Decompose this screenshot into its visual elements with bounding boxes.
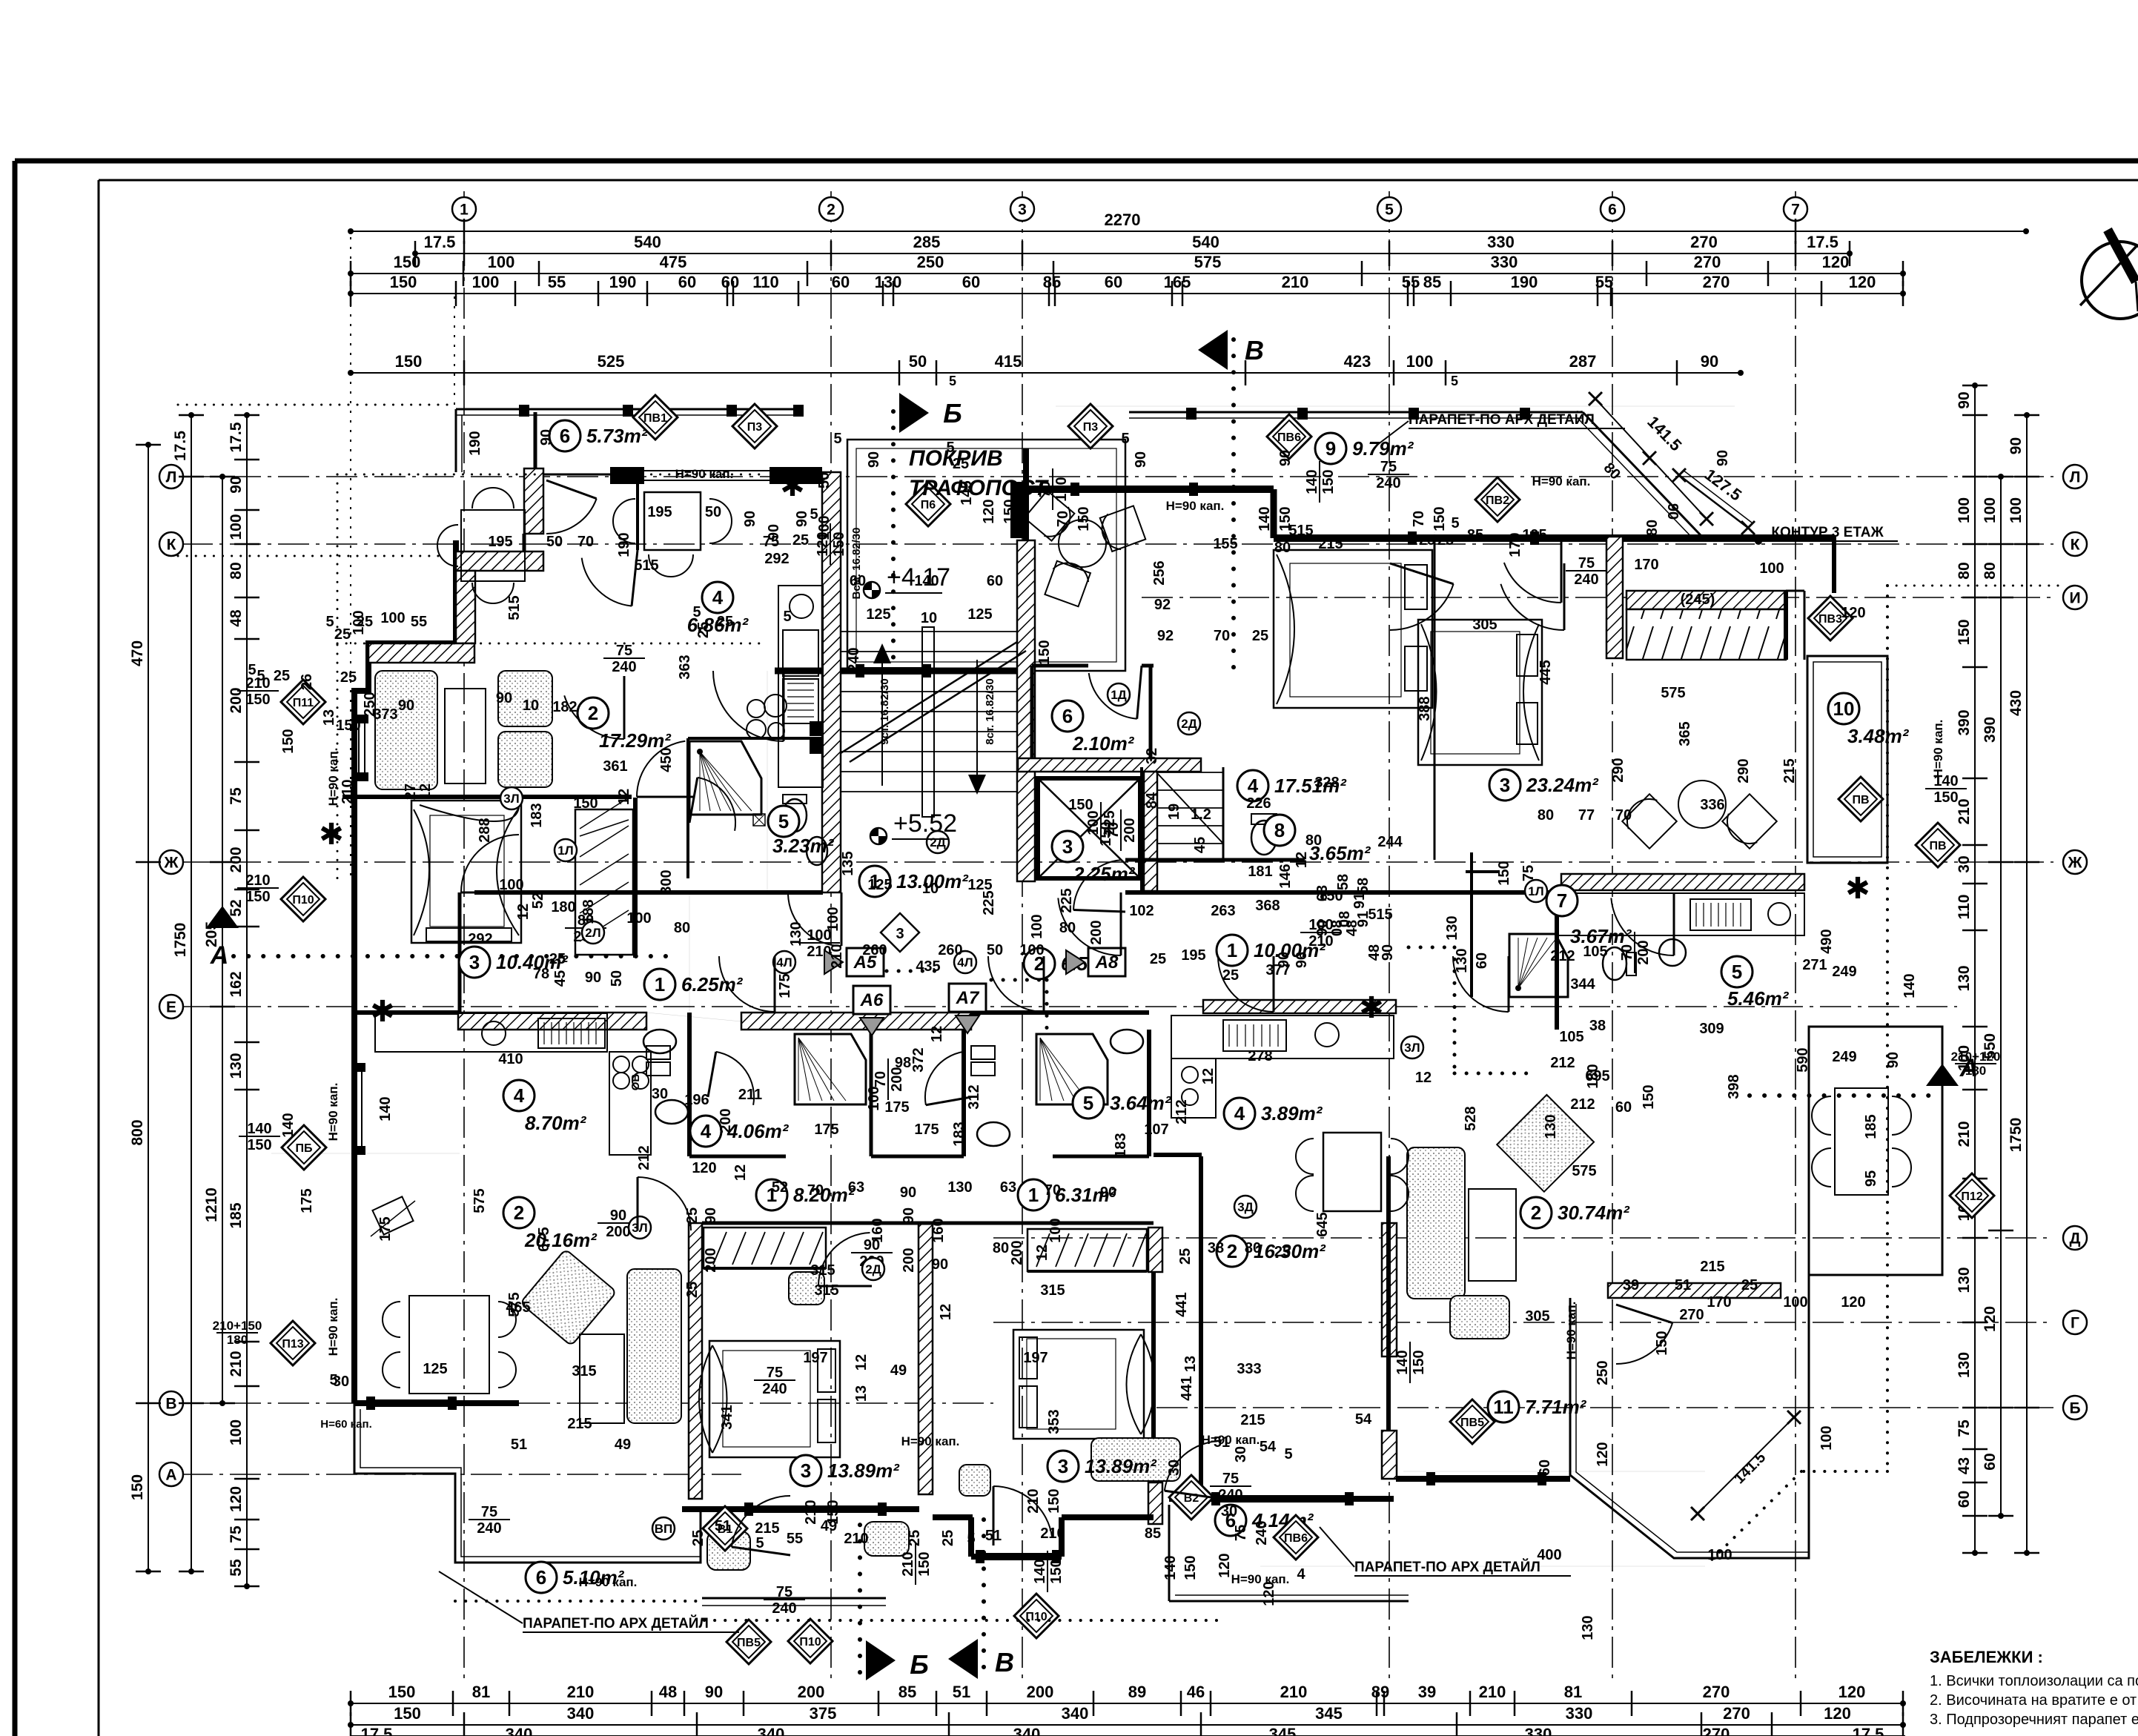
wall bedroom3 north [342,795,632,799]
svg-text:8: 8 [1274,819,1285,841]
svg-text:212: 212 [1550,948,1575,964]
svg-text:345: 345 [1269,1725,1297,1736]
svg-text:2.10m²: 2.10m² [1072,732,1135,755]
svg-text:315: 315 [1040,1282,1065,1299]
svg-text:П3: П3 [747,421,763,434]
svg-text:372: 372 [910,1047,927,1072]
svg-text:441: 441 [1174,1292,1190,1316]
svg-text:165: 165 [1164,273,1191,291]
svg-text:130: 130 [875,273,902,291]
svg-text:2270: 2270 [1105,211,1141,229]
svg-text:100: 100 [499,877,523,893]
svg-text:470: 470 [129,640,146,666]
svg-text:77: 77 [1578,807,1595,824]
svg-text:17.5: 17.5 [172,431,189,461]
svg-text:292: 292 [468,931,492,947]
bath 7 3.67 [1466,870,1498,873]
svg-text:П13: П13 [282,1338,303,1351]
svg-text:85: 85 [898,1683,916,1701]
svg-text:200: 200 [1009,1240,1025,1265]
svg-text:175: 175 [814,1122,838,1138]
svg-text:6: 6 [1062,705,1073,727]
svg-text:48: 48 [228,609,245,627]
svg-text:Б: Б [2069,1400,2080,1417]
svg-text:100: 100 [1818,1425,1835,1450]
svg-text:120: 120 [692,1160,716,1176]
bath 3.23 walls [688,737,822,740]
bedroom2 east wall [1151,1228,1156,1524]
svg-text:450: 450 [658,747,675,772]
svg-text:90: 90 [585,970,601,986]
toilet mid-right [977,1122,1010,1146]
svg-text:Ж: Ж [164,855,179,872]
svg-text:К: К [167,537,176,554]
svg-text:60: 60 [721,273,739,291]
svg-text:244: 244 [1377,834,1403,850]
svg-text:78: 78 [533,966,549,982]
svg-text:415: 415 [995,352,1022,371]
svg-text:183: 183 [1113,1133,1129,1157]
svg-text:85: 85 [1467,527,1483,543]
svg-text:100: 100 [2008,497,2025,523]
svg-text:435: 435 [916,958,940,975]
svg-text:150: 150 [394,1704,421,1723]
diagonal dim 141.5 bottom right [1698,1417,1794,1514]
sink mid-left [643,1030,676,1053]
svg-text:260: 260 [862,942,887,958]
bottom-left partition kitchen/living [271,1153,460,1154]
svg-text:75: 75 [1222,1471,1239,1487]
svg-text:75: 75 [228,787,245,805]
svg-text:175: 175 [914,1122,939,1138]
inner mattress lines beds [723,1351,810,1447]
svg-text:90: 90 [610,1207,626,1224]
shower mid-left [795,1034,866,1104]
svg-text:340: 340 [506,1725,533,1736]
svg-text:305: 305 [1525,1308,1549,1325]
svg-text:210: 210 [844,1531,868,1547]
svg-text:140: 140 [1902,973,1918,998]
svg-text:ПВ: ПВ [1929,840,1946,852]
svg-text:Б: Б [910,1649,929,1680]
svg-text:185: 185 [228,1202,245,1228]
svg-text:5: 5 [778,810,789,832]
svg-text:162: 162 [228,971,245,997]
OB boxes [646,1046,670,1059]
svg-text:45: 45 [552,970,569,987]
svg-text:1750: 1750 [2008,1118,2025,1153]
sofa living 16.30 [1091,1438,1180,1481]
svg-text:ПБ: ПБ [296,1142,313,1155]
svg-text:170: 170 [1634,557,1658,573]
svg-text:90: 90 [228,476,245,493]
svg-text:55: 55 [228,1559,245,1577]
stair arrows [881,652,883,786]
svg-text:150: 150 [336,718,360,734]
svg-text:160: 160 [930,1218,947,1242]
svg-text:4: 4 [1248,775,1259,797]
svg-text:П12: П12 [1961,1190,1982,1203]
svg-text:58: 58 [1335,874,1351,890]
svg-text:70: 70 [807,1182,824,1199]
svg-text:25: 25 [717,614,733,630]
svg-text:90: 90 [1701,352,1718,371]
svg-text:240: 240 [772,1600,796,1617]
svg-text:188: 188 [580,899,597,924]
svg-text:50: 50 [609,970,625,987]
svg-text:46: 46 [1187,1683,1205,1701]
svg-text:25: 25 [1222,967,1239,984]
svg-text:4.06m²: 4.06m² [727,1120,790,1142]
svg-text:90: 90 [932,1256,948,1273]
svg-text:100: 100 [1982,497,1999,523]
svg-text:17.5: 17.5 [1853,1725,1884,1736]
svg-text:575: 575 [1194,253,1222,271]
svg-text:210: 210 [340,779,356,804]
kitchen 3.89 right [1203,1000,1396,1013]
svg-text:125: 125 [867,877,892,893]
svg-text:80: 80 [1274,540,1291,556]
middle bath row walls [687,1030,692,1156]
svg-text:150: 150 [245,889,270,905]
svg-text:4: 4 [514,1084,525,1107]
section mark B bottom [858,1508,862,1681]
svg-text:4: 4 [701,1120,712,1142]
svg-text:150: 150 [245,692,270,708]
svg-text:90: 90 [496,690,512,706]
svg-text:19: 19 [1166,804,1182,820]
top-left terrace parapet jambs [519,405,529,417]
svg-text:52: 52 [228,899,245,916]
svg-text:240: 240 [477,1520,501,1537]
third floor contour dotted [1886,586,1889,1471]
svg-text:10: 10 [921,610,937,626]
burners top-left kitchen [747,700,765,718]
section mark A right [1926,1064,1959,1086]
svg-text:150: 150 [1432,506,1448,531]
svg-text:50: 50 [909,352,927,371]
svg-text:190: 190 [609,273,637,291]
svg-text:140: 140 [247,1121,271,1137]
svg-text:130: 130 [947,1179,972,1196]
svg-text:25: 25 [1252,628,1268,644]
svg-text:4: 4 [712,586,724,609]
svg-text:695: 695 [1585,1068,1609,1084]
svg-text:75: 75 [228,1525,245,1543]
south wall left apartment [354,1400,519,1406]
svg-text:210: 210 [1479,1683,1506,1701]
svg-text:63: 63 [1000,1179,1016,1196]
svg-text:✱: ✱ [370,995,395,1028]
svg-text:200: 200 [1122,818,1138,842]
svg-text:183: 183 [951,1122,967,1146]
svg-text:25: 25 [1274,1244,1291,1260]
svg-text:9ст. 16.82/30: 9ст. 16.82/30 [878,678,891,744]
svg-text:1Л: 1Л [557,844,573,858]
svg-text:353: 353 [1046,1409,1062,1434]
svg-text:150: 150 [916,1551,933,1576]
svg-text:1.2: 1.2 [1191,806,1211,823]
svg-text:4Л: 4Л [776,955,792,970]
svg-text:Б: Б [943,398,962,428]
svg-text:575: 575 [1572,1163,1596,1179]
svg-text:11: 11 [1493,1396,1514,1418]
top-middle apartment partitions [1140,767,1143,892]
svg-text:48: 48 [659,1683,677,1701]
svg-text:H=90 кап.: H=90 кап. [326,1083,340,1142]
level marks [864,563,950,598]
svg-text:2: 2 [588,702,598,724]
svg-text:278: 278 [1248,1048,1272,1064]
svg-text:90: 90 [1100,1185,1116,1201]
svg-text:23.24m²: 23.24m² [1526,774,1599,796]
svg-text:ПВ6: ПВ6 [1284,1532,1308,1545]
svg-text:390: 390 [1956,709,1973,735]
wall between 16.30 and 30.74 hatched [1382,1223,1397,1356]
svg-text:515: 515 [634,557,658,574]
svg-text:249: 249 [1832,1049,1856,1065]
svg-text:107: 107 [1144,1122,1168,1138]
svg-text:125: 125 [967,877,992,893]
svg-text:54: 54 [1260,1439,1277,1455]
svg-text:32: 32 [1144,748,1160,764]
room10 east wing outline [1807,656,1887,863]
svg-text:125: 125 [866,606,890,623]
svg-text:H=90 кап.: H=90 кап. [1564,1302,1578,1360]
svg-text:515: 515 [1288,523,1313,539]
svg-text:90: 90 [1715,450,1731,466]
svg-text:12: 12 [732,1164,749,1181]
svg-text:120: 120 [1841,1294,1865,1311]
svg-text:+5.52: +5.52 [893,809,957,838]
svg-text:195: 195 [647,504,672,520]
svg-text:3: 3 [896,926,904,942]
svg-text:ТРАФОПОСТ: ТРАФОПОСТ [909,476,1049,500]
svg-text:120: 120 [1261,1581,1277,1606]
svg-text:800: 800 [129,1119,146,1145]
svg-text:ПВ6: ПВ6 [1277,431,1301,444]
svg-text:175: 175 [777,973,793,998]
svg-text:3: 3 [469,951,480,973]
svg-text:287: 287 [1569,352,1597,371]
svg-text:250: 250 [917,253,944,271]
svg-text:90: 90 [1314,920,1331,936]
svg-text:60: 60 [962,273,980,291]
right apartment partition at 2100 [1470,852,1473,997]
svg-text:270: 270 [1703,1683,1730,1701]
svg-text:90: 90 [538,429,555,445]
svg-text:17.5: 17.5 [361,1725,393,1736]
svg-text:К: К [2071,537,2080,554]
svg-text:13: 13 [321,709,337,726]
svg-text:515: 515 [506,595,523,620]
svg-text:140: 140 [1162,1555,1179,1580]
svg-text:240: 240 [762,1381,787,1397]
north wall top-left apartment with windows [610,467,644,484]
svg-text:5: 5 [248,662,256,678]
svg-text:25: 25 [684,1282,701,1298]
svg-text:5: 5 [329,1372,337,1388]
door arcs [713,671,784,741]
svg-text:270: 270 [1679,1307,1704,1323]
svg-text:КОНТУР 3 ЕТАЖ: КОНТУР 3 ЕТАЖ [1771,525,1884,540]
svg-text:✱: ✱ [780,470,805,503]
svg-text:105: 105 [1559,1029,1583,1045]
svg-text:90: 90 [398,698,414,714]
hatched pier west step1 [456,551,543,571]
armchair 16.30 [0,0,1,1]
svg-text:336: 336 [1700,797,1724,813]
table top-left terrace [461,510,525,581]
svg-text:П11: П11 [293,697,314,709]
svg-text:55: 55 [1595,273,1613,291]
svg-text:26: 26 [299,674,315,690]
shower mid-right [1036,1034,1108,1104]
hatched pier terrace corner [524,468,543,534]
svg-text:25: 25 [1741,1277,1758,1293]
svg-text:51: 51 [953,1683,970,1701]
svg-text:8ст. 16.82/30: 8ст. 16.82/30 [984,678,996,744]
svg-text:2: 2 [514,1202,524,1224]
bedroom1 closet [704,1228,826,1268]
svg-text:490: 490 [1818,929,1835,953]
svg-text:55: 55 [1402,273,1420,291]
wardrobe room3 [575,809,633,955]
svg-text:60: 60 [1474,953,1490,969]
svg-text:100: 100 [825,907,841,931]
svg-text:90: 90 [1664,503,1681,520]
svg-text:В: В [1245,335,1264,365]
svg-text:1: 1 [1227,939,1237,961]
svg-text:300: 300 [658,869,675,894]
svg-text:195: 195 [1522,527,1546,543]
svg-text:215: 215 [1318,536,1343,552]
svg-text:75: 75 [1233,1525,1249,1541]
terrace 4.14 [1168,1505,1171,1601]
svg-text:140: 140 [1257,506,1273,531]
room6 2.10 walls [1032,664,1088,668]
stair core west hatched wall [822,472,841,892]
svg-text:H=90 кап.: H=90 кап. [1166,499,1225,513]
top-left terrace parapet [456,408,804,411]
west jagged exterior wall [354,540,456,1403]
svg-text:140: 140 [1032,1559,1048,1583]
svg-text:60: 60 [987,573,1003,589]
svg-text:271: 271 [1802,957,1827,973]
svg-text:75: 75 [1956,1419,1973,1437]
svg-text:3: 3 [1500,774,1510,796]
svg-text:12: 12 [616,789,632,805]
svg-text:345: 345 [1315,1704,1343,1723]
svg-text:210: 210 [1040,1525,1065,1542]
svg-text:183: 183 [529,803,545,827]
svg-text:330: 330 [1525,1725,1552,1736]
svg-text:54: 54 [1355,1411,1372,1428]
svg-text:575: 575 [1661,685,1685,701]
svg-text:100: 100 [1783,1294,1807,1311]
svg-text:292: 292 [764,551,789,567]
svg-text:90: 90 [900,1185,916,1201]
svg-text:210: 210 [567,1683,595,1701]
corridor door arcs extra [788,895,841,947]
svg-text:340: 340 [567,1704,595,1723]
svg-text:240: 240 [1376,475,1400,491]
svg-text:39: 39 [1623,1277,1639,1293]
svg-text:30: 30 [1166,1460,1182,1476]
svg-text:140: 140 [914,573,939,589]
svg-text:190: 190 [1511,273,1538,291]
svg-text:7.71m²: 7.71m² [1525,1396,1587,1418]
svg-text:75: 75 [767,1365,783,1381]
secondary top dimension row [351,372,1741,374]
svg-text:30.74m²: 30.74m² [1558,1202,1630,1224]
svg-text:250: 250 [1595,1360,1611,1385]
svg-text:330: 330 [1487,233,1515,251]
svg-text:52: 52 [530,892,546,909]
svg-text:12: 12 [515,904,532,920]
svg-text:50: 50 [546,534,563,550]
svg-text:3.48m²: 3.48m² [1847,725,1910,747]
svg-text:H=90 кап.: H=90 кап. [1231,1572,1290,1586]
stair core east hatched wall [1017,540,1035,881]
svg-text:150: 150 [1076,506,1092,531]
svg-text:П10: П10 [292,894,314,907]
svg-text:70: 70 [1055,511,1071,527]
svg-text:6.25m²: 6.25m² [681,973,744,995]
svg-text:150: 150 [831,531,847,556]
north compass [2082,242,2138,319]
svg-text:200: 200 [718,1108,734,1133]
svg-text:410: 410 [498,1051,523,1067]
svg-text:200: 200 [228,847,245,872]
svg-text:180: 180 [1965,1064,1986,1078]
svg-text:90: 90 [742,511,758,527]
svg-text:П6: П6 [921,499,936,511]
svg-text:270: 270 [1690,233,1718,251]
section mark B top [891,411,896,671]
svg-text:10: 10 [922,881,939,897]
table 336 right [1678,781,1726,828]
svg-text:3Д: 3Д [1237,1200,1254,1214]
grid axes vertical 1,2,3,5,6,7 [463,191,465,1683]
svg-text:130: 130 [788,921,804,946]
svg-text:398: 398 [1726,1074,1742,1099]
svg-text:215: 215 [1781,758,1798,783]
svg-text:240: 240 [1254,1520,1270,1545]
svg-text:100: 100 [1048,1218,1064,1242]
svg-text:200: 200 [798,1683,825,1701]
svg-text:1: 1 [460,202,469,219]
svg-text:27: 27 [403,783,419,800]
svg-text:51: 51 [715,1518,731,1534]
svg-text:210+120: 210+120 [1951,1050,2001,1064]
svg-text:3Л: 3Л [632,1221,647,1235]
armchairs bottom-left [414,1156,416,1157]
svg-text:100: 100 [472,273,500,291]
svg-text:210+150: 210+150 [213,1319,262,1333]
svg-text:75: 75 [1578,555,1595,572]
round table top-middle [1059,520,1106,567]
svg-text:1. Всички топлоизолации са по: 1. Всички топлоизолации са по ОВ изчисле… [1930,1673,2138,1689]
section mark V top [1231,339,1236,671]
svg-text:340: 340 [758,1725,785,1736]
door fraction labels at diamonds [237,675,279,708]
svg-text:3: 3 [1062,835,1073,858]
svg-text:3.23m²: 3.23m² [772,835,835,857]
svg-text:25: 25 [1177,1248,1194,1265]
svg-text:60: 60 [1105,273,1122,291]
svg-text:52: 52 [772,1179,788,1196]
